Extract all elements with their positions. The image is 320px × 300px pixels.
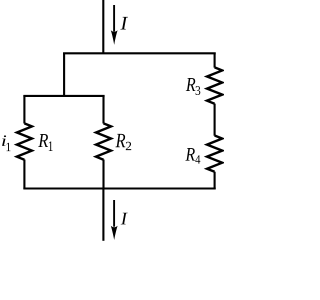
resistor R4 [207,136,222,172]
wire: R1 bottom lead [23,160,25,190]
wire: R1 top lead [23,95,25,123]
wire: drop from top rail to parallel pair node [63,53,65,97]
wire: between R3 and R4 [214,104,216,136]
wire: top horizontal rail [63,52,216,54]
label R3 [186,78,201,95]
wire: top feed vertical into top node [102,0,104,54]
label R4 [185,148,200,164]
wire: R2 top lead [102,95,104,123]
wire: bottom exit tail [102,188,104,241]
wire: R2 bottom lead [102,160,104,190]
wire: R4 bottom lead [214,172,216,190]
wire: bottom rail [23,187,215,189]
wire: right branch top lead [214,53,216,68]
resistor R2 [96,123,111,159]
resistor R1 [17,123,32,159]
resistor R3 [207,67,222,103]
label I (top) [120,17,128,30]
current arrow I (bottom) [111,200,118,240]
wire: upper rail of parallel pair R1 R2 [23,95,104,97]
label i1 [2,135,10,151]
current arrow I (top) [111,5,118,45]
label R1 [38,134,52,151]
label I (bottom) [121,213,128,225]
label R2 [116,134,132,150]
